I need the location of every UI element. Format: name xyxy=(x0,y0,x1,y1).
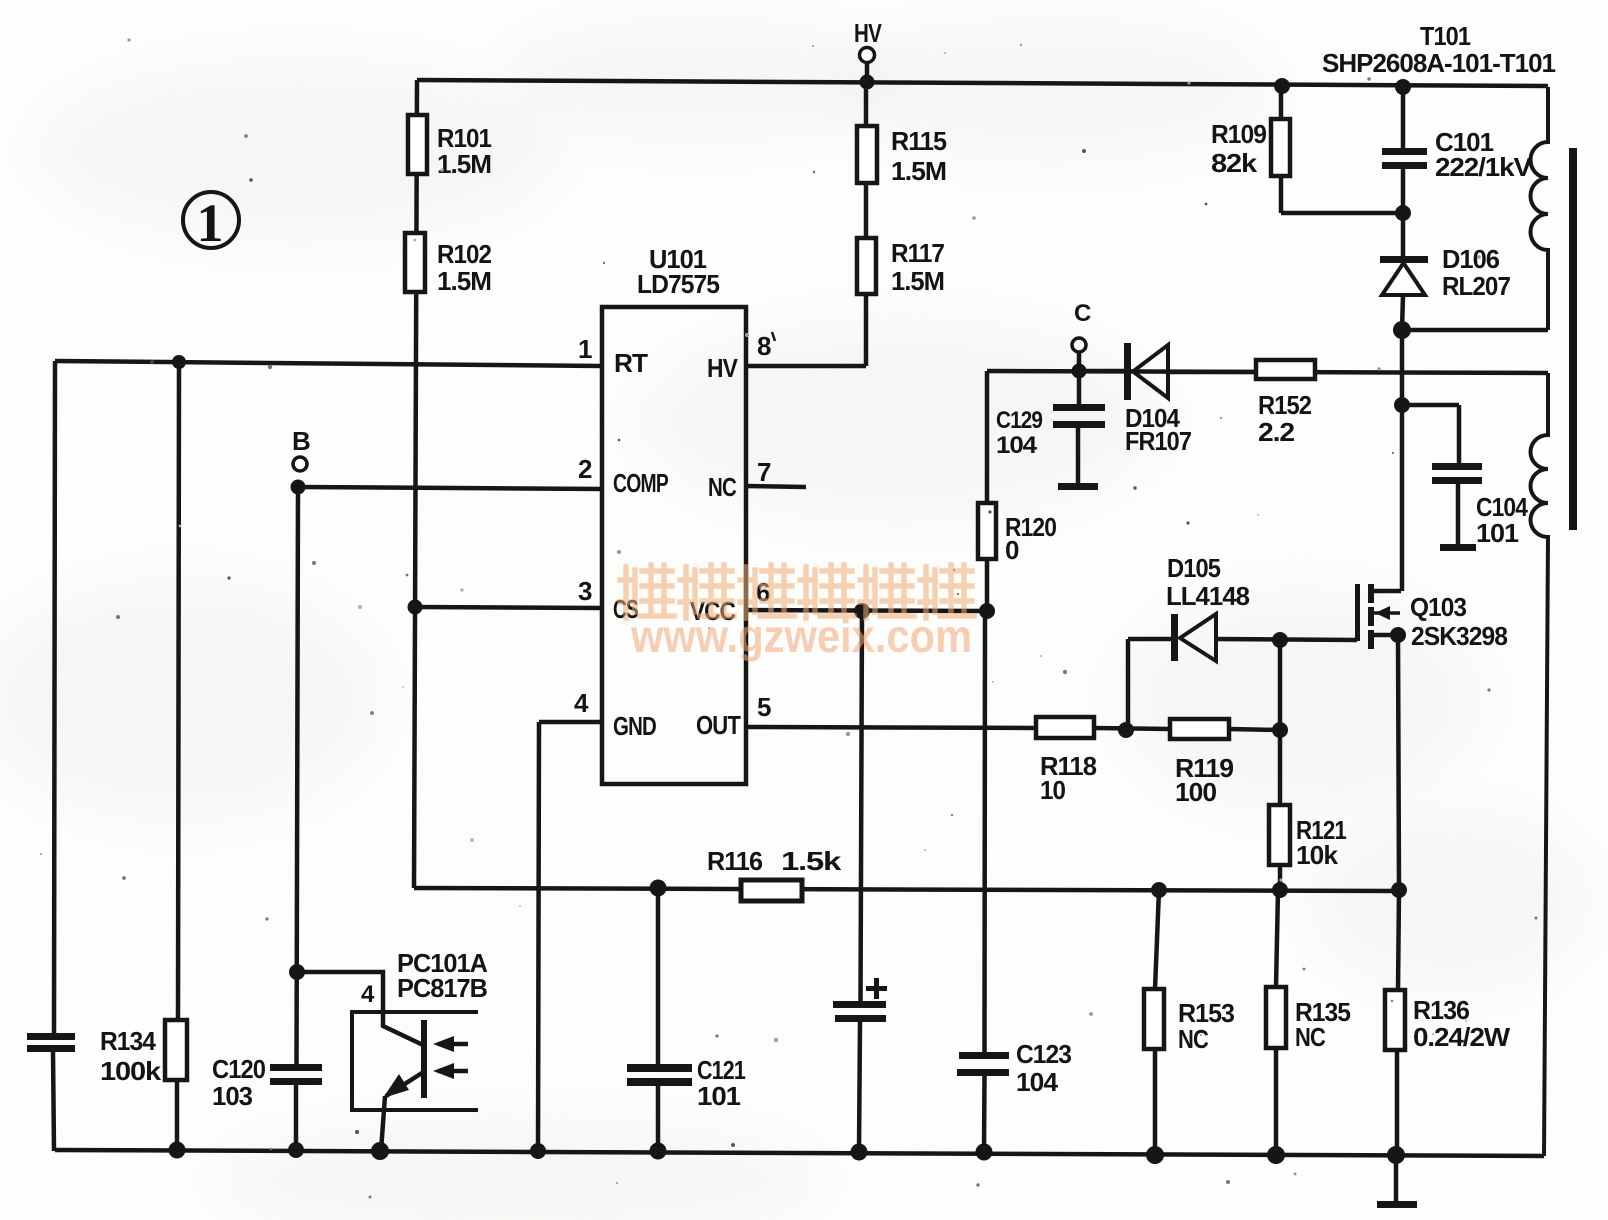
svg-text:100: 100 xyxy=(1175,777,1217,807)
svg-text:COMP: COMP xyxy=(613,468,668,498)
svg-text:101: 101 xyxy=(697,1081,741,1111)
svg-text:SHP2608A-101-T101: SHP2608A-101-T101 xyxy=(1322,48,1556,78)
svg-text:RL207: RL207 xyxy=(1442,271,1510,301)
svg-text:LD7575: LD7575 xyxy=(637,269,720,299)
svg-text:R116: R116 xyxy=(707,846,763,876)
svg-text:D106: D106 xyxy=(1442,244,1500,274)
svg-text:4: 4 xyxy=(574,688,589,718)
svg-text:104: 104 xyxy=(996,432,1038,459)
svg-text:1: 1 xyxy=(578,334,592,364)
svg-text:OUT: OUT xyxy=(696,710,741,740)
svg-text:C123: C123 xyxy=(1016,1039,1072,1069)
svg-text:1.5M: 1.5M xyxy=(437,266,491,296)
svg-text:C: C xyxy=(1074,300,1091,327)
svg-text:1.5M: 1.5M xyxy=(437,149,491,179)
svg-text:1.5M: 1.5M xyxy=(891,156,946,186)
svg-text:82k: 82k xyxy=(1211,148,1258,178)
svg-text:NC: NC xyxy=(708,472,737,502)
svg-text:NC: NC xyxy=(1178,1024,1209,1054)
svg-text:RT: RT xyxy=(614,348,648,378)
svg-text:103: 103 xyxy=(212,1081,253,1111)
svg-text:C129: C129 xyxy=(996,407,1043,434)
svg-text:C120: C120 xyxy=(212,1054,265,1084)
svg-text:5: 5 xyxy=(757,692,771,722)
svg-text:R134: R134 xyxy=(100,1026,156,1056)
svg-text:www.gzweix.com: www.gzweix.com xyxy=(630,610,972,662)
svg-text:R136: R136 xyxy=(1413,995,1470,1025)
svg-text:100k: 100k xyxy=(100,1056,162,1086)
svg-text:R117: R117 xyxy=(891,238,944,268)
svg-text:10: 10 xyxy=(1040,775,1065,805)
svg-text:10k: 10k xyxy=(1296,840,1339,870)
svg-text:2: 2 xyxy=(578,454,592,484)
svg-text:101: 101 xyxy=(1476,518,1519,548)
svg-text:2.2: 2.2 xyxy=(1258,417,1295,447)
svg-text:R115: R115 xyxy=(891,126,947,156)
svg-text:R152: R152 xyxy=(1258,390,1311,420)
svg-text:3: 3 xyxy=(578,576,592,606)
svg-text:HV: HV xyxy=(854,18,882,48)
svg-text:4: 4 xyxy=(361,981,375,1008)
svg-text:1: 1 xyxy=(197,193,224,253)
svg-text:FR107: FR107 xyxy=(1125,426,1191,456)
svg-text:R102: R102 xyxy=(437,239,492,269)
svg-text:1.5k: 1.5k xyxy=(781,846,842,876)
svg-text:T101: T101 xyxy=(1420,21,1470,51)
svg-text:B: B xyxy=(292,426,310,456)
svg-text:2SK3298: 2SK3298 xyxy=(1411,621,1508,651)
svg-text:104: 104 xyxy=(1016,1067,1059,1097)
svg-text:222/1kV: 222/1kV xyxy=(1435,152,1533,182)
svg-text:Q103: Q103 xyxy=(1410,592,1467,622)
svg-text:1.5M: 1.5M xyxy=(891,266,944,296)
svg-text:8: 8 xyxy=(757,331,771,361)
svg-text:7: 7 xyxy=(757,457,771,487)
svg-text:R109: R109 xyxy=(1211,119,1267,149)
svg-text:PC817B: PC817B xyxy=(397,973,487,1003)
svg-text:HV: HV xyxy=(707,353,738,383)
svg-text:0.24/2W: 0.24/2W xyxy=(1413,1022,1511,1052)
svg-text:GND: GND xyxy=(613,711,656,741)
svg-text:D105: D105 xyxy=(1167,553,1220,583)
svg-text:0: 0 xyxy=(1005,535,1019,565)
svg-text:LL4148: LL4148 xyxy=(1166,581,1250,611)
svg-text:NC: NC xyxy=(1295,1022,1326,1052)
